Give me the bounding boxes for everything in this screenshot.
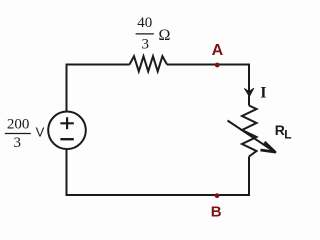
voltage source circle xyxy=(48,112,86,150)
voltage source minus sign xyxy=(60,138,73,140)
variable resistor RL zigzag xyxy=(242,106,257,157)
svg-text:200: 200 xyxy=(7,117,30,133)
current arrow I head xyxy=(244,88,254,97)
variable resistor RL arrowhead xyxy=(261,142,276,152)
svg-text:L: L xyxy=(284,127,291,141)
svg-text:B: B xyxy=(211,204,222,221)
wire left vertical upper (source to top) xyxy=(66,64,68,112)
node B dot xyxy=(215,193,220,198)
svg-text:Ω: Ω xyxy=(158,27,170,44)
svg-text:V: V xyxy=(36,124,45,139)
wire top-left segment xyxy=(67,64,130,66)
wire right vertical lower (RL bottom to node B corner) xyxy=(248,157,250,197)
voltage source plus sign xyxy=(60,117,73,129)
svg-text:3: 3 xyxy=(13,135,21,151)
value label 40/3 fraction bar xyxy=(136,33,154,35)
svg-text:40: 40 xyxy=(137,15,152,31)
variable resistor RL arrow shaft xyxy=(228,121,274,151)
resistor 40/3 ohm zigzag xyxy=(130,56,168,71)
wire right vertical upper (node A corner to RL top) xyxy=(248,64,250,106)
svg-text:3: 3 xyxy=(141,36,149,52)
svg-text:I: I xyxy=(260,85,266,102)
wire top-right segment xyxy=(167,64,249,66)
wire bottom xyxy=(66,194,250,196)
svg-text:A: A xyxy=(212,42,224,59)
wire left vertical lower (bottom to source) xyxy=(66,150,68,196)
node A dot xyxy=(215,63,220,68)
value label 200/3 fraction bar xyxy=(5,133,31,135)
